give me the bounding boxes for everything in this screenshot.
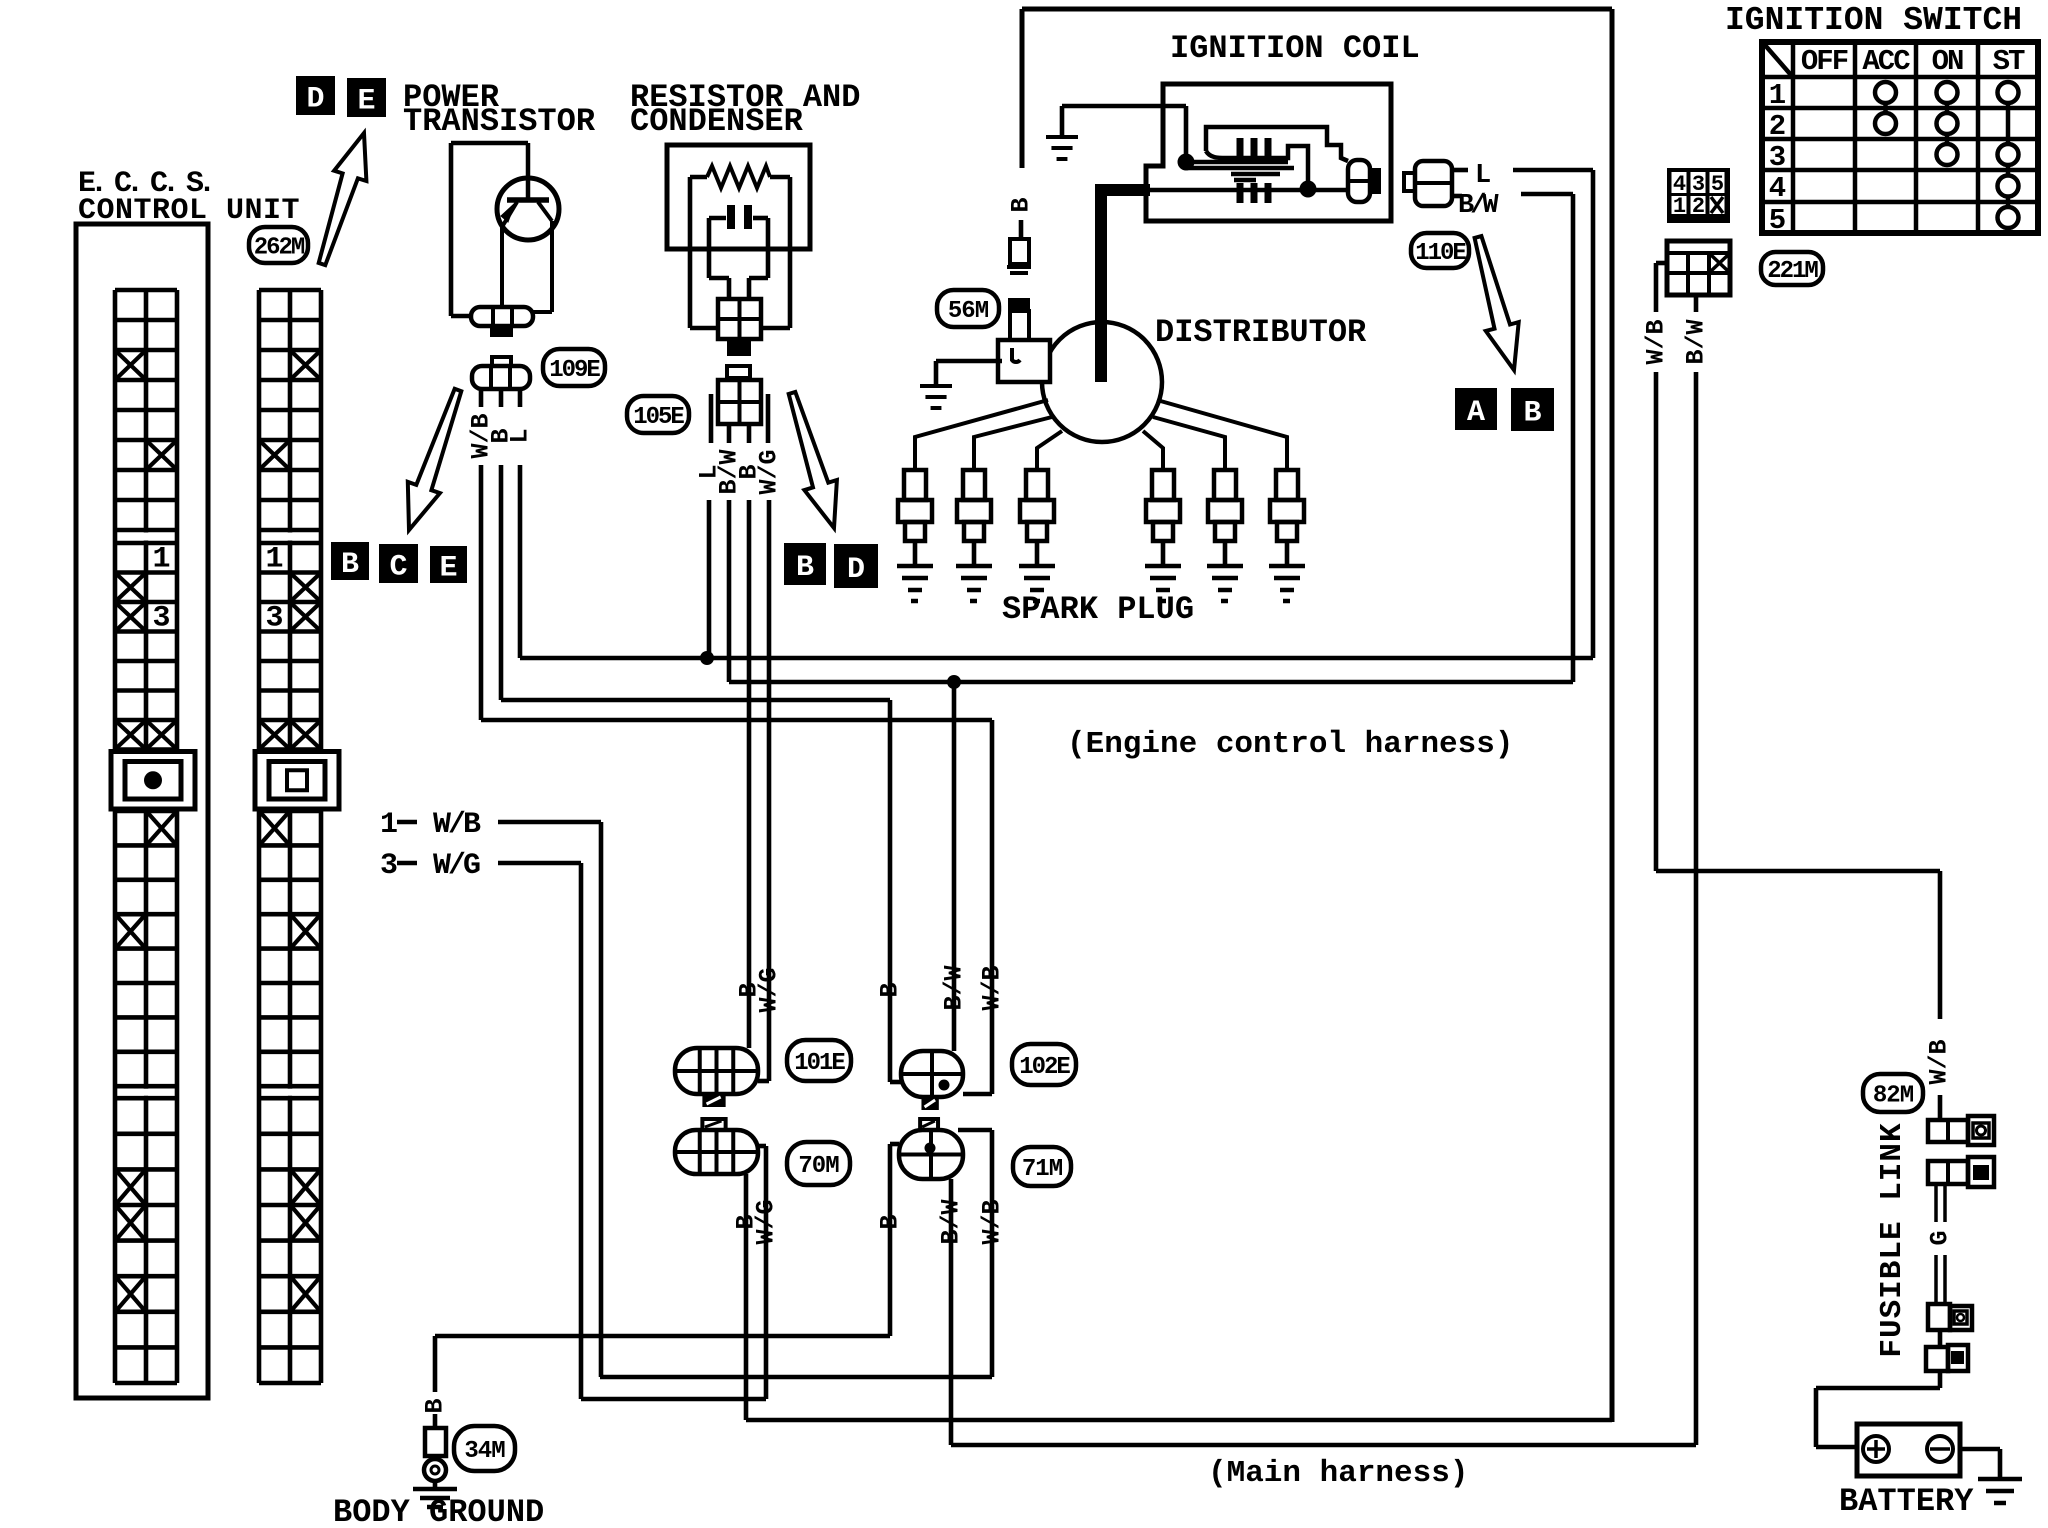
svg-text:W/B: W/B [978, 1199, 1007, 1244]
svg-text:W/B: W/B [978, 965, 1007, 1010]
svg-text:82M: 82M [1873, 1083, 1914, 1110]
svg-text:3: 3 [380, 849, 398, 883]
svg-text:B: B [876, 982, 905, 997]
svg-text:B/W: B/W [1458, 191, 1499, 221]
svg-text:L: L [1475, 161, 1491, 191]
svg-text:1: 1 [1769, 79, 1786, 112]
svg-text:B/W: B/W [937, 1199, 966, 1244]
svg-text:G: G [1926, 1230, 1955, 1245]
svg-text:2: 2 [1769, 110, 1786, 143]
svg-text:OFF: OFF [1801, 45, 1848, 78]
svg-text:ST: ST [1993, 45, 2025, 78]
svg-text:W/G: W/G [433, 849, 480, 883]
svg-text:W/G: W/G [755, 967, 784, 1012]
svg-text:W/B: W/B [433, 808, 481, 842]
svg-text:B: B [341, 548, 359, 582]
svg-text:B/W: B/W [940, 965, 969, 1010]
svg-text:262M: 262M [254, 235, 305, 262]
svg-text:4: 4 [1769, 172, 1786, 205]
svg-text:B/W: B/W [1682, 319, 1711, 364]
svg-text:D: D [847, 553, 865, 587]
svg-text:E: E [357, 84, 375, 118]
svg-text:5: 5 [1769, 204, 1786, 237]
svg-text:IGNITION SWITCH: IGNITION SWITCH [1725, 2, 2022, 39]
svg-text:56M: 56M [948, 298, 989, 325]
svg-text:ON: ON [1932, 45, 1963, 78]
svg-text:101E: 101E [794, 1050, 845, 1077]
svg-text:W/B: W/B [1925, 1039, 1954, 1084]
svg-text:1: 1 [152, 543, 170, 577]
svg-text:D: D [306, 82, 324, 116]
svg-text:IGNITION COIL: IGNITION COIL [1170, 30, 1420, 67]
svg-text:A: A [1467, 396, 1485, 430]
svg-text:B: B [796, 551, 814, 585]
svg-text:W/G: W/G [755, 449, 784, 494]
svg-text:105E: 105E [633, 404, 684, 431]
svg-text:TRANSISTOR: TRANSISTOR [403, 103, 596, 140]
svg-text:B: B [1523, 396, 1541, 430]
svg-text:1: 1 [265, 543, 283, 577]
svg-text:110E: 110E [1415, 240, 1466, 267]
svg-text:DISTRIBUTOR: DISTRIBUTOR [1155, 314, 1367, 351]
svg-text:W/B: W/B [1642, 319, 1671, 364]
svg-text:1: 1 [1673, 194, 1686, 219]
svg-text:CONTROL UNIT: CONTROL UNIT [78, 194, 300, 228]
svg-text:71M: 71M [1022, 1156, 1063, 1183]
svg-text:5: 5 [1711, 172, 1724, 197]
svg-text:(Engine control harness): (Engine control harness) [1067, 727, 1513, 762]
svg-text:B: B [421, 1398, 450, 1413]
svg-text:109E: 109E [549, 357, 600, 384]
svg-text:BATTERY: BATTERY [1839, 1483, 1974, 1520]
svg-text:3: 3 [152, 602, 170, 636]
svg-text:C: C [389, 550, 407, 584]
svg-text:ACC: ACC [1862, 45, 1910, 78]
svg-text:CONDENSER: CONDENSER [630, 103, 804, 140]
svg-text:102E: 102E [1019, 1054, 1070, 1081]
svg-text:3: 3 [265, 602, 283, 636]
svg-text:B: B [1007, 197, 1036, 212]
svg-text:BODY GROUND: BODY GROUND [333, 1494, 544, 1523]
svg-text:E: E [439, 551, 457, 585]
svg-text:(Main harness): (Main harness) [1208, 1456, 1468, 1491]
svg-text:34M: 34M [464, 1438, 505, 1465]
svg-text:L: L [506, 428, 535, 443]
svg-text:3: 3 [1769, 141, 1786, 174]
svg-text:W/G: W/G [752, 1199, 781, 1244]
svg-text:SPARK PLUG: SPARK PLUG [1002, 591, 1194, 628]
svg-text:FUSIBLE LINK: FUSIBLE LINK [1875, 1122, 1910, 1357]
svg-text:B: B [876, 1214, 905, 1229]
svg-text:70M: 70M [798, 1153, 839, 1180]
svg-text:2: 2 [1692, 194, 1705, 219]
svg-text:1: 1 [380, 808, 398, 842]
svg-text:221M: 221M [1767, 258, 1818, 285]
